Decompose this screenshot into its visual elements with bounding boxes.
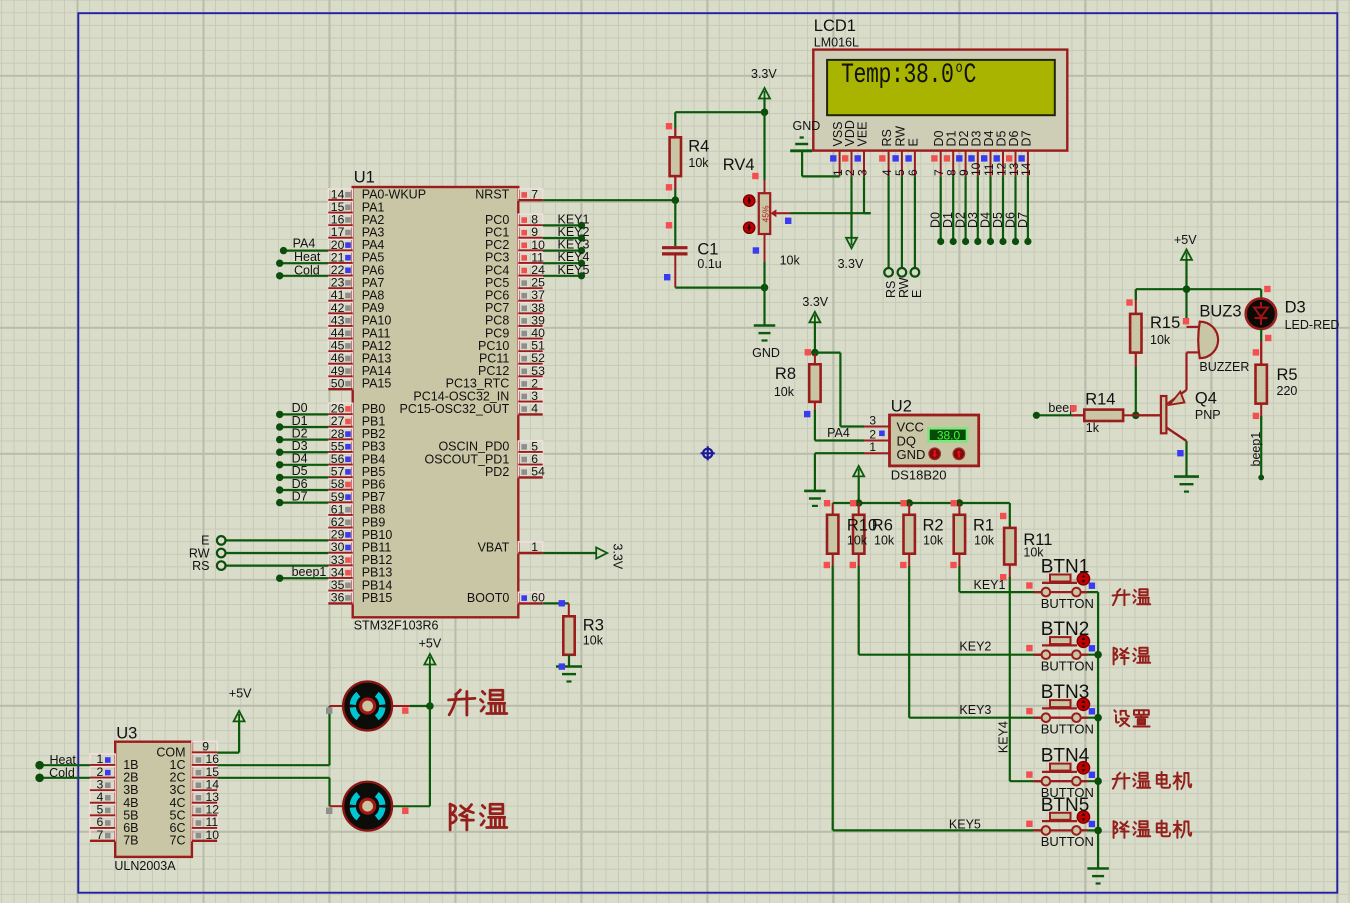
- svg-text:5: 5: [893, 169, 907, 176]
- svg-text:BUTTON: BUTTON: [1041, 722, 1094, 737]
- svg-text:KEY2: KEY2: [959, 640, 991, 654]
- svg-text:o: o: [956, 61, 963, 78]
- svg-text:7: 7: [531, 187, 538, 201]
- svg-text:LCD1: LCD1: [814, 17, 856, 35]
- svg-text:PD2: PD2: [485, 465, 509, 479]
- svg-text:U2: U2: [891, 398, 912, 416]
- svg-text:beep1: beep1: [292, 565, 327, 579]
- svg-text:RW: RW: [897, 277, 911, 298]
- svg-text:PC15-OSC32_OUT: PC15-OSC32_OUT: [400, 402, 510, 416]
- svg-text:beep1: beep1: [1249, 432, 1263, 467]
- svg-text:E: E: [910, 290, 924, 298]
- svg-text:4: 4: [880, 169, 894, 176]
- svg-text:BUTTON: BUTTON: [1041, 659, 1094, 674]
- svg-text:+5V: +5V: [229, 687, 252, 701]
- svg-text:54: 54: [531, 465, 545, 479]
- svg-text:10k: 10k: [847, 534, 868, 548]
- svg-text:R4: R4: [688, 137, 709, 155]
- svg-text:U1: U1: [354, 169, 375, 187]
- svg-text:0.1u: 0.1u: [697, 257, 721, 271]
- svg-text:R3: R3: [583, 617, 604, 635]
- svg-text:3: 3: [855, 169, 869, 176]
- svg-text:STM32F103R6: STM32F103R6: [354, 619, 439, 633]
- svg-text:50: 50: [331, 376, 345, 390]
- svg-text:D7: D7: [1019, 130, 1033, 146]
- svg-text:BUTTON: BUTTON: [1041, 834, 1094, 849]
- svg-text:LM016L: LM016L: [814, 36, 859, 50]
- svg-text:10k: 10k: [974, 534, 995, 548]
- svg-text:BUTTON: BUTTON: [1041, 596, 1094, 611]
- svg-text:D7: D7: [292, 489, 308, 503]
- svg-text:Q4: Q4: [1195, 390, 1217, 408]
- svg-text:BUZ3: BUZ3: [1199, 303, 1241, 321]
- svg-text:3.3V: 3.3V: [611, 544, 625, 570]
- svg-text:VBAT: VBAT: [478, 541, 510, 555]
- svg-text:GND: GND: [897, 447, 926, 462]
- svg-text:PB15: PB15: [362, 591, 393, 605]
- svg-text:U3: U3: [116, 725, 137, 743]
- svg-text:Temp:38.0: Temp:38.0: [841, 60, 953, 91]
- svg-text:R1: R1: [973, 517, 994, 535]
- svg-text:PNP: PNP: [1195, 408, 1221, 422]
- svg-text:C: C: [964, 60, 977, 91]
- svg-text:BOOT0: BOOT0: [467, 591, 509, 605]
- svg-text:R15: R15: [1150, 314, 1180, 332]
- svg-text:RS: RS: [192, 559, 209, 573]
- svg-text:KEY4: KEY4: [997, 721, 1011, 753]
- svg-text:4: 4: [531, 402, 538, 416]
- svg-text:D3: D3: [1285, 299, 1306, 317]
- svg-text:Heat: Heat: [294, 250, 321, 264]
- svg-text:1k: 1k: [1086, 421, 1100, 435]
- svg-text:RV4: RV4: [723, 156, 755, 174]
- svg-text:10k: 10k: [583, 634, 604, 648]
- svg-text:DS18B20: DS18B20: [891, 468, 947, 483]
- svg-text:KEY5: KEY5: [949, 817, 981, 831]
- svg-text:NRST: NRST: [475, 188, 509, 202]
- svg-text:KEY1: KEY1: [974, 578, 1006, 592]
- svg-text:RS: RS: [884, 281, 898, 298]
- svg-text:R8: R8: [775, 365, 796, 383]
- svg-text:PA15: PA15: [362, 377, 392, 391]
- svg-text:14: 14: [1019, 162, 1033, 176]
- svg-text:GND: GND: [752, 346, 780, 360]
- svg-text:+5V: +5V: [1174, 233, 1197, 247]
- svg-text:1: 1: [869, 440, 876, 454]
- svg-text:R6: R6: [872, 517, 893, 535]
- svg-text:10k: 10k: [688, 156, 709, 170]
- svg-text:C1: C1: [697, 241, 718, 259]
- svg-text:45%: 45%: [761, 205, 771, 222]
- svg-text:BUZZER: BUZZER: [1199, 360, 1249, 374]
- svg-text:10: 10: [206, 828, 220, 842]
- svg-text:36: 36: [331, 591, 345, 605]
- svg-text:3.3V: 3.3V: [838, 257, 864, 271]
- svg-text:KEY3: KEY3: [959, 703, 991, 717]
- svg-text:BTN5: BTN5: [1041, 795, 1090, 816]
- svg-text:7C: 7C: [170, 834, 186, 848]
- svg-text:R5: R5: [1277, 366, 1298, 384]
- svg-text:RS: RS: [880, 129, 894, 146]
- svg-text:BTN2: BTN2: [1041, 619, 1090, 640]
- svg-text:KEY5: KEY5: [558, 263, 590, 277]
- svg-text:GND: GND: [793, 119, 821, 133]
- svg-text:7B: 7B: [123, 834, 138, 848]
- svg-text:E: E: [906, 138, 920, 146]
- svg-text:D7: D7: [1016, 212, 1030, 228]
- svg-text:10k: 10k: [874, 534, 895, 548]
- svg-text:3.3V: 3.3V: [751, 67, 777, 81]
- svg-text:10k: 10k: [780, 254, 801, 268]
- svg-text:38.0: 38.0: [937, 429, 961, 443]
- svg-text:RW: RW: [893, 126, 907, 147]
- svg-text:10k: 10k: [923, 534, 944, 548]
- svg-text:R2: R2: [923, 517, 944, 535]
- svg-text:10k: 10k: [774, 385, 795, 399]
- svg-text:+5V: +5V: [419, 637, 442, 651]
- svg-text:R14: R14: [1085, 391, 1115, 409]
- svg-text:VCC: VCC: [897, 420, 924, 435]
- svg-text:BTN1: BTN1: [1041, 557, 1090, 578]
- svg-text:VEE: VEE: [856, 121, 870, 146]
- svg-text:BTN4: BTN4: [1041, 746, 1090, 767]
- svg-text:1: 1: [531, 540, 538, 554]
- svg-text:PA4: PA4: [827, 426, 850, 440]
- svg-text:10k: 10k: [1150, 333, 1171, 347]
- svg-text:PA4: PA4: [293, 237, 316, 251]
- svg-text:3.3V: 3.3V: [802, 295, 828, 309]
- svg-text:6: 6: [906, 169, 920, 176]
- svg-text:BTN3: BTN3: [1041, 682, 1090, 703]
- svg-text:7: 7: [97, 828, 104, 842]
- svg-text:LED-RED: LED-RED: [1285, 318, 1340, 332]
- svg-text:3: 3: [869, 413, 876, 427]
- svg-text:ULN2003A: ULN2003A: [114, 859, 176, 873]
- svg-text:220: 220: [1277, 384, 1298, 398]
